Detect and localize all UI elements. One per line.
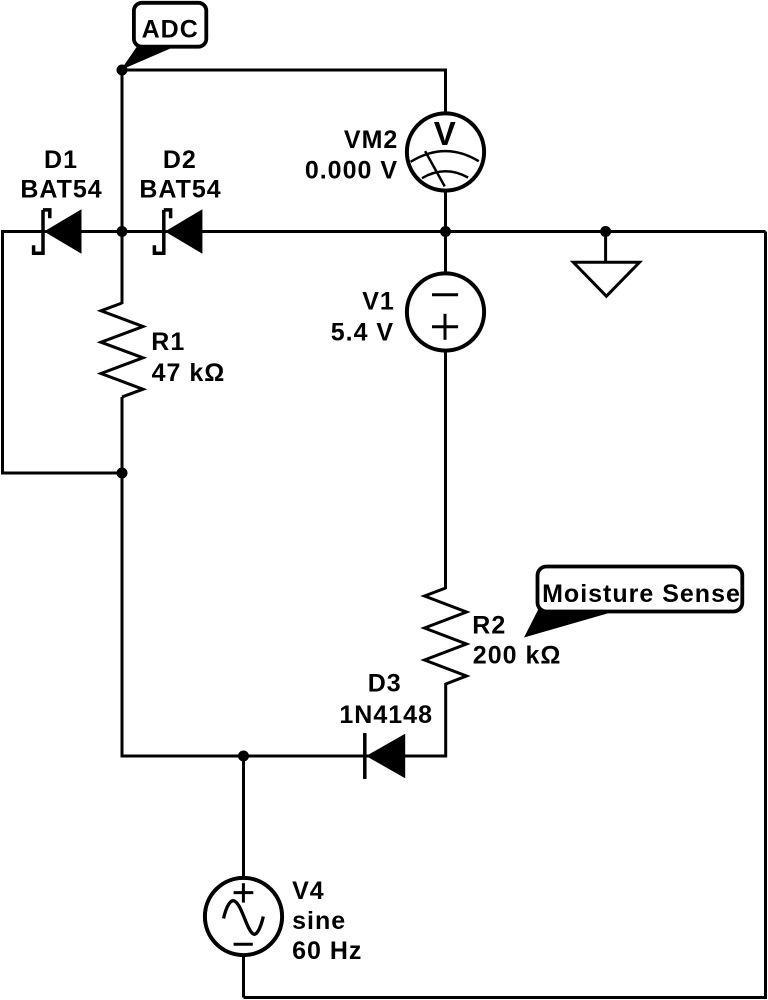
svg-text:R2: R2 xyxy=(472,611,506,639)
callout Moisture Sense box xyxy=(538,567,743,612)
svg-text:V4: V4 xyxy=(292,877,325,905)
ground xyxy=(573,262,639,296)
wire V1 bottom to R2 top xyxy=(444,350,447,589)
wire bottom rail and right edge up to bus xyxy=(244,232,766,998)
callout Moisture Sense tail xyxy=(524,608,616,638)
svg-text:0.000 V: 0.000 V xyxy=(305,157,398,185)
callout ADC tail xyxy=(121,45,175,70)
svg-text:BAT54: BAT54 xyxy=(139,176,221,204)
source V1 xyxy=(407,273,484,350)
resistor R1 xyxy=(101,303,143,397)
svg-text:47 kΩ: 47 kΩ xyxy=(152,359,226,387)
node bus-center junction dot xyxy=(440,226,451,237)
node R1-bottom junction dot xyxy=(117,468,128,479)
wire bottom row y=756 from x=122 to R2 column xyxy=(122,683,446,756)
svg-text:200 kΩ: 200 kΩ xyxy=(473,641,562,669)
svg-text:60 Hz: 60 Hz xyxy=(292,937,362,965)
node bottom-row junction dot xyxy=(238,751,249,762)
svg-text:V: V xyxy=(434,115,456,152)
svg-text:D2: D2 xyxy=(163,146,197,174)
diode D3 1N4148 xyxy=(365,733,405,779)
wire VM2 bottom through bus junction to V1 top xyxy=(444,190,447,274)
wire junction at 243.5,756 down to V4 top xyxy=(242,756,245,879)
wire R1 bottom to junction and down to bottom row xyxy=(121,397,124,758)
node ADC junction dot xyxy=(117,65,128,76)
svg-text:ADC: ADC xyxy=(142,15,199,43)
svg-text:5.4 V: 5.4 V xyxy=(331,318,394,346)
wire left edge down and over to R1 bottom junction xyxy=(3,232,123,474)
svg-text:VM2: VM2 xyxy=(344,126,398,154)
source V4 sine xyxy=(205,878,282,955)
svg-text:D1: D1 xyxy=(44,146,78,174)
node bus-ground junction dot xyxy=(600,226,611,237)
svg-text:1N4148: 1N4148 xyxy=(339,701,433,729)
resistor R2 xyxy=(425,588,467,684)
svg-text:R1: R1 xyxy=(151,328,185,356)
svg-text:V1: V1 xyxy=(362,287,395,315)
svg-text:sine: sine xyxy=(292,907,346,935)
callout ADC box xyxy=(134,3,206,47)
svg-text:BAT54: BAT54 xyxy=(20,176,102,204)
wire top horizontal node to VM2 xyxy=(122,70,446,113)
wire vertical left column x=122 from ADC node to R1 top xyxy=(121,70,124,304)
voltmeter VM2 xyxy=(407,113,484,190)
wire ground stub xyxy=(604,232,607,263)
diode D1 BAT54 schottky xyxy=(34,209,82,253)
node bus-left junction dot xyxy=(117,226,128,237)
svg-text:D3: D3 xyxy=(368,670,402,698)
svg-text:Moisture Sense: Moisture Sense xyxy=(542,580,741,608)
diode D2 BAT54 schottky xyxy=(154,209,202,253)
wire V4 bottom to bottom rail xyxy=(242,954,245,998)
wire horizontal bus y=231.5 xyxy=(1,230,766,233)
